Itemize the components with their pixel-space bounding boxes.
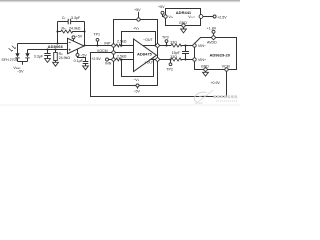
label CF 3.3pF xyxy=(62,16,81,20)
ground under 0.1uF xyxy=(83,66,89,70)
svg-text:TP3: TP3 xyxy=(162,36,169,40)
svg-text:TP2: TP2 xyxy=(166,67,173,71)
dark diode D2 xyxy=(25,50,29,62)
wire feedback left leg xyxy=(57,22,59,44)
pin -OUT diamond xyxy=(155,43,160,48)
capacitor CF 3.3pF xyxy=(58,19,85,25)
wire -OUT to ADC VIN- xyxy=(160,45,171,47)
pin GND of ADC xyxy=(204,68,207,73)
pin VOCM xyxy=(112,51,134,54)
svg-text:3.3pF: 3.3pF xyxy=(71,16,81,20)
pin VIN- xyxy=(193,44,196,47)
svg-text:AD8066: AD8066 xyxy=(48,44,64,49)
resistor RF 24.9k xyxy=(58,30,85,33)
capacitor C2 3.3uF xyxy=(44,50,50,59)
svg-text:33Ω: 33Ω xyxy=(170,41,177,45)
svg-text:24.9kΩ: 24.9kΩ xyxy=(69,27,81,31)
internal resistor 2.5k top xyxy=(115,44,133,47)
resistor 33ohm bottom xyxy=(171,58,193,61)
resistor RB xyxy=(54,50,58,63)
op-amp input signs xyxy=(69,42,71,50)
svg-text:−5V: −5V xyxy=(133,89,140,93)
node cap tap xyxy=(46,48,48,50)
svg-text:2.5kΩ: 2.5kΩ xyxy=(117,40,127,44)
node VBIAS -5V xyxy=(13,66,24,74)
terminal +2.5V output xyxy=(203,15,216,18)
node RF left xyxy=(56,30,58,32)
node output feedback junction xyxy=(83,44,85,46)
svg-text:+0.9V: +0.9V xyxy=(210,81,220,85)
svg-text:CF: CF xyxy=(62,16,67,20)
pin INN xyxy=(112,58,115,61)
svg-text:AVDD: AVDD xyxy=(207,41,217,45)
pin -VS xyxy=(136,84,139,89)
svg-text:3.3μF: 3.3μF xyxy=(34,55,44,59)
diff amp U2 AD8475 box xyxy=(114,20,158,86)
svg-text:24.9kΩ: 24.9kΩ xyxy=(59,56,71,60)
wire +OUT xyxy=(150,59,156,61)
label RB 24.9k xyxy=(59,52,71,60)
pin INP xyxy=(112,44,115,47)
wire VCM to VOCM xyxy=(91,53,227,97)
capacitor 0.1uF on -5V xyxy=(78,56,89,66)
resistor 33ohm top xyxy=(171,44,193,47)
node resistor RB tap xyxy=(54,48,56,50)
svg-text:AD8475: AD8475 xyxy=(137,51,152,56)
svg-text:AD9629-20: AD9629-20 xyxy=(210,52,231,57)
voltage reference U4 ADR441 box xyxy=(166,9,201,26)
wire diode cathode link xyxy=(18,62,28,65)
test point TP3 xyxy=(165,40,168,46)
light arrows into D1 xyxy=(9,46,17,52)
svg-text:+2.5V: +2.5V xyxy=(91,57,101,61)
wire summing node row xyxy=(18,43,68,45)
pin VIN+ xyxy=(193,58,196,61)
svg-text:+5V: +5V xyxy=(158,5,165,9)
test point TP1 xyxy=(96,38,99,45)
op-amp U1 AD8066 xyxy=(68,38,85,53)
pin GND of ADR441 xyxy=(182,24,185,29)
supply +5V of AD8066 xyxy=(72,36,75,41)
capacitor 15pF xyxy=(182,46,189,60)
wire feedback right leg xyxy=(84,22,86,46)
svg-text:VCM: VCM xyxy=(222,65,230,69)
supply +5V of ADR441 xyxy=(161,11,164,16)
test point TP2 xyxy=(169,60,172,66)
ground under ADC xyxy=(203,72,209,76)
svg-text:VIN−: VIN− xyxy=(198,44,206,48)
pin VOUT xyxy=(199,15,203,19)
node RF right xyxy=(83,30,85,32)
pin VIN xyxy=(164,15,167,18)
pin +OUT diamond xyxy=(155,57,160,62)
svg-text:+2.5V: +2.5V xyxy=(217,15,227,19)
ground under RB xyxy=(53,62,59,66)
watermark text line 2 xyxy=(216,100,237,102)
svg-text:+OUT: +OUT xyxy=(145,60,155,64)
page top border xyxy=(0,0,240,3)
wire -OUT xyxy=(143,45,156,47)
svg-text:INN: INN xyxy=(105,62,112,66)
ADC U3 AD9629-20 box xyxy=(195,38,237,70)
watermark text line 1 xyxy=(214,95,238,98)
terminal +2.5V into INN xyxy=(106,58,112,61)
supply -5V of AD8066 xyxy=(76,49,79,56)
svg-text:33Ω: 33Ω xyxy=(170,55,177,59)
supply +1.8V xyxy=(212,30,215,35)
wire +OUT to ADC VIN+ xyxy=(160,59,171,61)
svg-text:INP: INP xyxy=(104,41,111,45)
wire internal bottom feedback loop xyxy=(122,60,154,77)
svg-text:VIN+: VIN+ xyxy=(198,58,206,62)
amp triangle AD8475 xyxy=(134,39,157,72)
wire noninverting input row xyxy=(28,49,68,51)
svg-text:−OUT: −OUT xyxy=(143,38,153,42)
svg-text:SFH 2701: SFH 2701 xyxy=(1,58,17,62)
svg-text:0.1μF: 0.1μF xyxy=(74,59,84,63)
ground under ADR441 xyxy=(181,29,187,33)
label RF 24.9k xyxy=(62,27,81,31)
svg-text:+5V: +5V xyxy=(134,8,141,12)
supply +5V of AD8475 xyxy=(137,12,140,21)
svg-text:TP1: TP1 xyxy=(93,33,100,37)
page bottom faint rule xyxy=(0,104,240,107)
svg-text:2.5kΩ: 2.5kΩ xyxy=(117,55,127,59)
svg-text:GND: GND xyxy=(201,65,209,69)
internal resistor 2.5k bottom xyxy=(115,58,133,61)
wire TIA output xyxy=(84,45,112,47)
pin VCM xyxy=(225,68,228,71)
svg-text:+1.8V: +1.8V xyxy=(207,26,217,30)
svg-text:GND: GND xyxy=(179,21,187,25)
ground under 3.3uF xyxy=(45,59,51,63)
photodiode D1 SFH 2701 xyxy=(15,44,19,62)
svg-text:+5V: +5V xyxy=(76,35,83,39)
watermark logo xyxy=(195,90,214,104)
node feedback tap xyxy=(56,42,58,44)
pin AVDD diamond xyxy=(211,35,216,40)
wire internal top feedback loop xyxy=(122,32,156,46)
svg-text:−5V: −5V xyxy=(17,70,24,74)
